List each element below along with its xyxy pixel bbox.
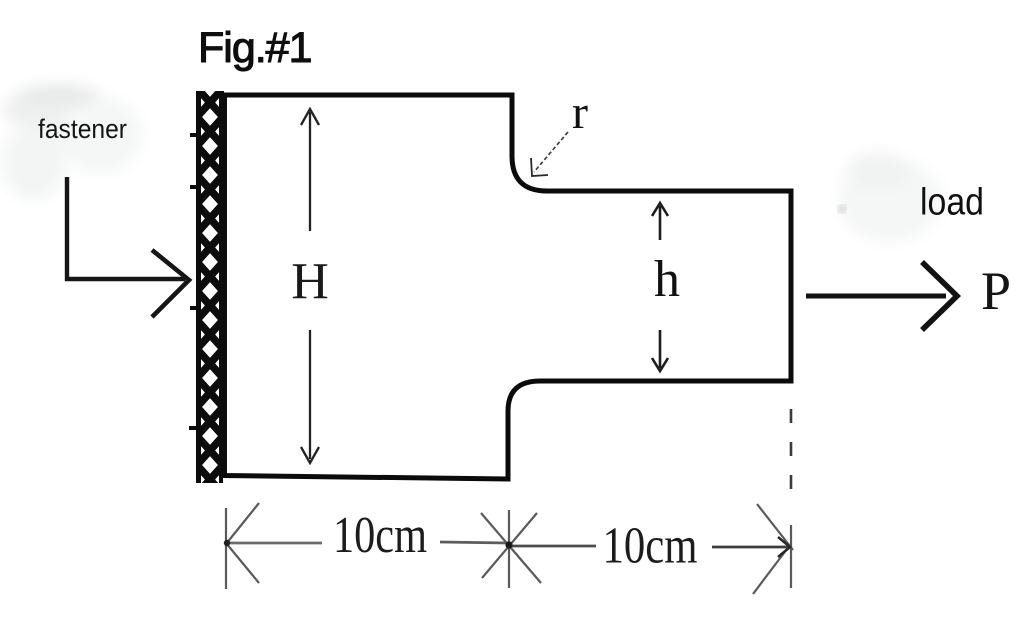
svg-text:Fig.#1: Fig.#1 xyxy=(198,24,312,72)
left dimension tick xyxy=(226,503,259,589)
dimension arrow h down xyxy=(659,330,662,368)
load arrow P xyxy=(806,294,946,299)
middle dimension tick (star) xyxy=(481,510,541,588)
svg-text:fastener: fastener xyxy=(38,114,127,144)
dimension line mid-left segment xyxy=(440,542,508,543)
dimension line right segment xyxy=(712,546,788,549)
dimension arrow H up xyxy=(309,112,311,231)
svg-text:h: h xyxy=(654,251,680,308)
dimension line mid-right segment xyxy=(510,545,596,548)
svg-text:P: P xyxy=(981,261,1011,321)
svg-text:r: r xyxy=(572,86,588,139)
wall hatching (fixed support) xyxy=(197,88,223,494)
dimension line left segment xyxy=(227,542,322,545)
fastener arrow xyxy=(67,177,185,279)
dashed projection line xyxy=(790,409,793,502)
svg-text:H: H xyxy=(291,254,329,311)
bar outline (stepped flat bar with fillet) xyxy=(225,95,792,479)
dimension arrow h up xyxy=(659,206,662,240)
svg-text:10cm: 10cm xyxy=(603,518,698,575)
wall tick marks xyxy=(189,131,232,434)
right dimension tick xyxy=(753,504,793,594)
svg-text:load: load xyxy=(920,182,984,224)
svg-text:10cm: 10cm xyxy=(333,507,427,564)
r leader arrow xyxy=(534,132,568,172)
scan smudge left xyxy=(2,84,142,200)
scan smudge right xyxy=(838,152,942,242)
scan speck near load xyxy=(840,207,845,212)
dimension arrow H down xyxy=(309,330,311,459)
